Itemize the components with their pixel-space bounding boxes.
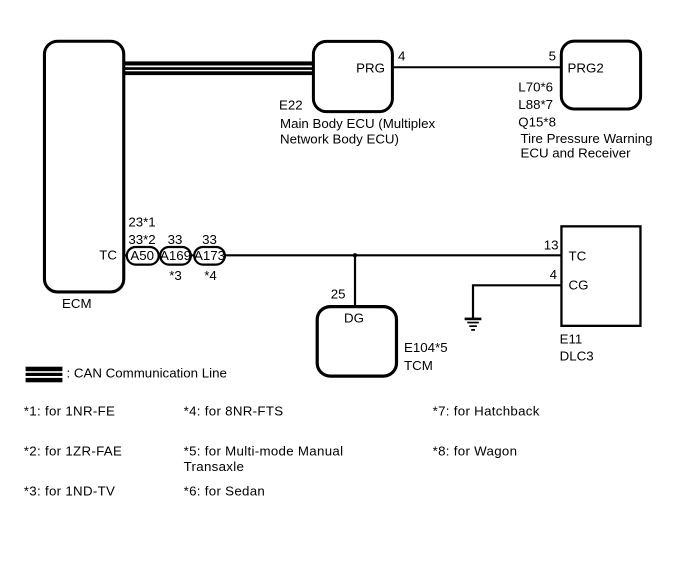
ECM box: [44, 41, 123, 292]
svg-text:*2: for 1ZR-FAE: *2: for 1ZR-FAE: [24, 444, 122, 459]
svg-text:: CAN Communication Line: : CAN Communication Line: [67, 365, 227, 380]
svg-text:*7: for Hatchback: *7: for Hatchback: [433, 404, 540, 419]
wire TC bus from ECM to DLC3: [124, 254, 563, 256]
svg-text:TC: TC: [569, 248, 587, 263]
svg-text:*4: for 8NR-FTS: *4: for 8NR-FTS: [184, 404, 284, 419]
svg-text:E22: E22: [279, 98, 303, 113]
svg-text:13: 13: [544, 237, 559, 252]
svg-text:*3: *3: [169, 268, 182, 283]
connector A50: [127, 247, 159, 265]
svg-text:Tire Pressure Warning: Tire Pressure Warning: [521, 131, 653, 146]
wire CG to ground: [473, 285, 562, 318]
svg-text:DG: DG: [344, 311, 364, 326]
connector A169: [160, 247, 191, 265]
svg-text:*6: for Sedan: *6: for Sedan: [184, 484, 266, 499]
CAN bus wire ECM to PRG (triple line): [124, 61, 313, 75]
svg-text:CG: CG: [569, 278, 589, 293]
svg-text:A169: A169: [160, 248, 191, 263]
svg-text:PRG: PRG: [356, 61, 385, 76]
wire junction to DG: [354, 255, 356, 307]
svg-text:4: 4: [398, 48, 405, 63]
svg-text:23*1: 23*1: [128, 214, 155, 229]
PRG box (Main Body ECU): [313, 41, 392, 111]
svg-text:A173: A173: [194, 248, 225, 263]
junction dot: [353, 253, 357, 257]
svg-text:25: 25: [331, 286, 346, 301]
svg-text:*4: *4: [204, 268, 217, 283]
svg-text:DLC3: DLC3: [560, 348, 594, 363]
svg-text:Main Body ECU (Multiplex: Main Body ECU (Multiplex: [280, 116, 436, 131]
wire PRG to PRG2: [393, 66, 562, 68]
svg-text:*8: for Wagon: *8: for Wagon: [433, 444, 518, 459]
svg-text:Network Body ECU): Network Body ECU): [280, 131, 399, 146]
PRG2 box (Tire Pressure Warning ECU): [561, 41, 640, 109]
svg-text:E104*5: E104*5: [404, 340, 448, 355]
svg-text:*1: for 1NR-FE: *1: for 1NR-FE: [24, 404, 115, 419]
svg-text:Q15*8: Q15*8: [518, 114, 556, 129]
svg-text:TCM: TCM: [404, 358, 433, 373]
svg-text:L70*6: L70*6: [518, 79, 553, 94]
svg-text:L88*7: L88*7: [518, 97, 553, 112]
svg-text:Transaxle: Transaxle: [184, 459, 245, 474]
svg-text:4: 4: [550, 267, 557, 282]
svg-text:33: 33: [168, 232, 183, 247]
svg-text:TC: TC: [99, 248, 117, 263]
DLC3 box (E11): [561, 226, 640, 326]
svg-text:E11: E11: [560, 332, 583, 347]
svg-text:5: 5: [549, 48, 556, 63]
svg-text:ECU and Receiver: ECU and Receiver: [521, 146, 632, 161]
svg-text:ECM: ECM: [62, 296, 92, 311]
legend CAN line symbol: [26, 367, 63, 383]
connector A173: [194, 247, 225, 265]
svg-text:A50: A50: [130, 248, 154, 263]
svg-text:33: 33: [202, 232, 217, 247]
svg-text:*5: for Multi-mode Manual: *5: for Multi-mode Manual: [184, 444, 344, 459]
svg-text:*3: for 1ND-TV: *3: for 1ND-TV: [24, 484, 115, 499]
ground symbol: [465, 318, 482, 331]
DG box (TCM): [317, 307, 396, 377]
svg-text:33*2: 33*2: [128, 232, 155, 247]
svg-text:PRG2: PRG2: [568, 61, 604, 76]
